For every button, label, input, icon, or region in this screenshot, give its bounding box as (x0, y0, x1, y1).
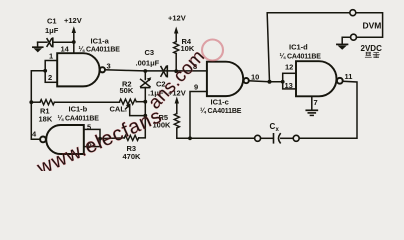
svg-text:2VDC: 2VDC (361, 44, 383, 53)
pin 7 stub (311, 96, 313, 110)
wire pin 14 (73, 42, 75, 53)
node terminal circle (DVM top) (350, 10, 356, 16)
svg-text:¼ CA4011BE: ¼ CA4011BE (79, 46, 121, 54)
svg-text:2: 2 (48, 73, 52, 82)
ground (pin 7) (306, 110, 317, 115)
svg-text:x: x (276, 127, 280, 133)
svg-text:+12V: +12V (64, 16, 82, 25)
svg-text:7: 7 (314, 98, 318, 107)
watermark www.elecfans (33, 40, 223, 180)
label R2 value (120, 79, 134, 95)
label C1 value (45, 17, 59, 36)
wire central vertical to R3 (139, 102, 146, 138)
wire pin3 rail to IC1-c pin8 (105, 70, 207, 71)
svg-text:DVM: DVM (363, 21, 382, 31)
node rail/R4 junction (174, 69, 178, 73)
svg-text:50K: 50K (120, 86, 134, 95)
svg-text:IC1-d: IC1-d (289, 43, 308, 52)
svg-text:9: 9 (194, 83, 198, 92)
svg-text:4: 4 (32, 130, 37, 139)
svg-text:1: 1 (49, 52, 53, 61)
wire wiper (130, 105, 146, 116)
op-amp U1 gate IC1-b (mirrored) (40, 125, 84, 154)
node input box pins 5,6 (IC1-b) (84, 129, 100, 146)
resistor R4 (174, 42, 179, 54)
svg-text:12: 12 (285, 62, 293, 71)
wire R5 to bottom rail (177, 129, 190, 139)
svg-text:18K: 18K (39, 114, 53, 123)
node input box pins 12,13 (IC1-d) (283, 73, 296, 89)
svg-text:10: 10 (251, 73, 259, 82)
wire bottom rail left of Cx (190, 137, 255, 139)
node +12V junction (72, 40, 76, 44)
label R3 value (123, 144, 142, 161)
svg-text:¼ CA4011BE: ¼ CA4011BE (58, 115, 100, 123)
node input box pins 1,2 (IC1-a) (45, 61, 57, 83)
label C2 value (148, 79, 166, 97)
wire DVM bottom to ground (342, 37, 350, 44)
node wiper junction (143, 114, 147, 118)
svg-text:+12V: +12V (168, 14, 186, 23)
label IC1-b (58, 105, 100, 123)
resistor R1 (40, 100, 54, 105)
power +12V (above R4) (174, 27, 178, 42)
node terminal circle (DVM bottom) (351, 34, 357, 40)
capacitor C1 (47, 38, 53, 46)
label IC1-a (79, 37, 121, 54)
capacitor C3 (161, 66, 167, 77)
svg-text:¼ CA4011BE: ¼ CA4011BE (200, 107, 242, 115)
capacitor C2 (trimmer) (141, 71, 152, 102)
svg-text:¼ CA4011BE: ¼ CA4011BE (280, 52, 322, 60)
ground (DVM) (337, 44, 348, 49)
label 2VDC range (361, 44, 383, 53)
power +12V (top-left) (72, 26, 76, 42)
wire terminal to Cx (261, 137, 273, 139)
node terminal circle (Cx right) (293, 135, 299, 141)
label Cx (270, 122, 280, 133)
wire (R1 to R2 rail) (54, 101, 119, 103)
op-amp U1 gate IC1-d (296, 61, 343, 96)
svg-text:C1: C1 (47, 17, 57, 26)
label R5 value (153, 113, 172, 130)
op-amp U1 gate IC1-a (57, 53, 105, 86)
node rail/C2 junction (143, 69, 147, 73)
wire (ground to C1) (38, 41, 47, 43)
ground (C1 left) (33, 42, 43, 52)
svg-text:13: 13 (285, 81, 293, 90)
label R1 value (39, 107, 53, 124)
label R4 value (181, 37, 195, 53)
wire pin 9 (190, 92, 207, 139)
resistor R3 (124, 135, 138, 140)
label IC1-d (280, 43, 322, 61)
label IC1-c (200, 98, 242, 116)
node R2/C2 junction (143, 100, 147, 104)
wire (feedback left vertical) (31, 71, 45, 140)
op-amp U1 gate IC1-c (207, 62, 249, 96)
node pin9 junction (188, 136, 192, 140)
svg-text:11: 11 (345, 72, 353, 81)
svg-text:1μF: 1μF (45, 26, 59, 35)
wire Cx to terminal (281, 137, 293, 139)
node pin10 junction (268, 80, 272, 84)
resistor R2 (pot) (120, 99, 137, 104)
svg-text:C3: C3 (145, 48, 155, 57)
meter DVM (356, 13, 383, 38)
wire pin 11 to bottom rail (299, 81, 357, 138)
svg-text:5: 5 (87, 122, 91, 131)
svg-text:14: 14 (61, 45, 70, 54)
wire to DVM top (267, 13, 350, 82)
node terminal circle (Cx left) (255, 135, 261, 141)
svg-text:.001μF: .001μF (136, 59, 160, 68)
node R1 junction (29, 100, 33, 104)
svg-text:IC1-b: IC1-b (69, 105, 88, 114)
svg-text:IC1-c: IC1-c (211, 98, 229, 107)
wire (C1 to junction) (53, 41, 74, 43)
svg-text:470K: 470K (123, 152, 142, 161)
wire pin 10 (249, 81, 283, 82)
svg-text:IC1-a: IC1-a (91, 37, 110, 46)
label C3 value (136, 48, 160, 68)
resistor R5 (174, 114, 179, 128)
capacitor Cx (274, 134, 281, 143)
svg-text:CAL.: CAL. (110, 104, 128, 113)
